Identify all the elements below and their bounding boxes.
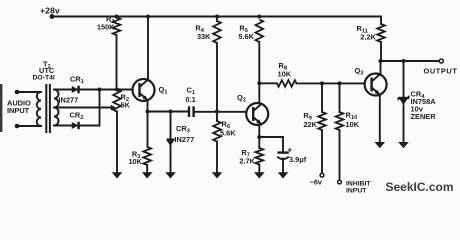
svg-text:2.7K: 2.7K xyxy=(239,156,255,165)
svg-text:33K: 33K xyxy=(197,32,211,41)
svg-text:5.6K: 5.6K xyxy=(220,128,236,137)
svg-text:OUTPUT: OUTPUT xyxy=(424,66,458,75)
svg-text:ZENER: ZENER xyxy=(411,112,437,121)
svg-text:IN277: IN277 xyxy=(59,96,79,105)
svg-text:+28v: +28v xyxy=(40,6,60,16)
svg-text:DO-T4I: DO-T4I xyxy=(33,74,55,81)
svg-text:150K: 150K xyxy=(97,23,115,32)
svg-text:CR3: CR3 xyxy=(176,124,191,135)
svg-text:SeekIC.com: SeekIC.com xyxy=(386,180,454,194)
svg-text:Q2: Q2 xyxy=(237,93,246,104)
svg-text:10K: 10K xyxy=(128,157,142,166)
svg-text:Q3: Q3 xyxy=(355,66,365,77)
svg-text:INPUT: INPUT xyxy=(7,106,30,115)
svg-text:+: + xyxy=(288,146,293,155)
svg-text:10K: 10K xyxy=(346,120,360,129)
svg-text:−6v: −6v xyxy=(310,177,323,186)
svg-text:CR2: CR2 xyxy=(70,111,84,122)
svg-text:Q1: Q1 xyxy=(159,85,169,96)
svg-text:0.1: 0.1 xyxy=(186,95,196,104)
svg-text:CR1: CR1 xyxy=(70,75,85,86)
svg-text:2.2K: 2.2K xyxy=(360,32,376,41)
svg-text:5.6K: 5.6K xyxy=(238,32,254,41)
svg-text:INPUT: INPUT xyxy=(346,187,367,194)
svg-text:3.9μf: 3.9μf xyxy=(289,155,307,164)
svg-text:10K: 10K xyxy=(278,69,292,78)
svg-text:5K: 5K xyxy=(121,101,131,110)
svg-text:INHIBIT: INHIBIT xyxy=(346,180,371,187)
svg-text:IN277: IN277 xyxy=(175,135,195,144)
svg-text:22K: 22K xyxy=(303,120,317,129)
